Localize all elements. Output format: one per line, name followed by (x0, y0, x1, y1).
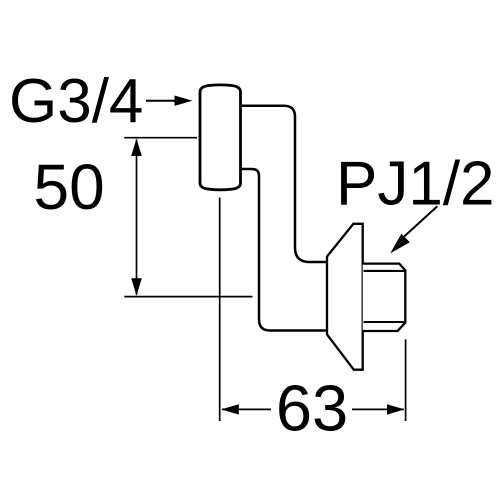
leader arrow for G3/4 (146, 96, 193, 106)
svg-text:63: 63 (276, 372, 348, 445)
thread relief bottom line (364, 321, 406, 323)
centerline extension below cylinder (219, 198, 221, 422)
threaded nipple PJ1/2 outline (363, 264, 406, 331)
right extension line below nipple (405, 339, 407, 421)
wall flange (327, 224, 363, 370)
dimension 50 vertical line with arrowheads (131, 139, 142, 296)
pipe inner (lower) wall (241, 169, 329, 331)
pipe outer (upper) wall (241, 106, 329, 262)
thread relief top line (364, 270, 406, 272)
dimension 63 line with arrowheads (221, 404, 404, 414)
svg-text:G3/4: G3/4 (9, 67, 143, 136)
dimension 50 top extension line (124, 137, 197, 139)
svg-text:50: 50 (34, 151, 105, 223)
leader arrow for PJ1/2 (390, 206, 437, 253)
cylinder socket G3/4 (200, 85, 241, 190)
svg-text:PJ1/2: PJ1/2 (336, 150, 495, 219)
dimension 50 bottom extension line (124, 296, 252, 298)
